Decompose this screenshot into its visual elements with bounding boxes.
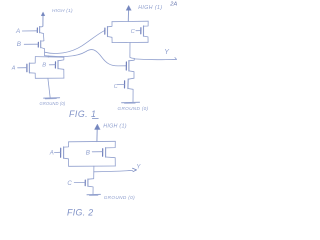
transistor N4 (NMOS, gate C, FIG.1 right)	[125, 78, 135, 102]
svg-text:A: A	[49, 151, 54, 157]
ground symbol (FIG.1 right)	[122, 102, 140, 103]
transistor N2 (NMOS, gate B, FIG.1 left)	[55, 57, 64, 78]
svg-text:Y: Y	[136, 164, 141, 170]
wire NMOS block bottom rail	[35, 77, 64, 79]
transistor N3 (NMOS, gate from N1, FIG.1 right)	[126, 61, 134, 79]
svg-text:C: C	[114, 84, 118, 90]
wire Y node down to NMOS stack	[129, 58, 134, 60]
transistor N5 (NMOS, gate C, FIG.2)	[85, 179, 93, 195]
wire C gate lead (P4)	[136, 30, 141, 32]
svg-text:C: C	[67, 180, 72, 187]
svg-text:FIG. 2: FIG. 2	[67, 207, 94, 217]
wire node N1 to right PMOS gate (curved)	[45, 31, 105, 54]
wire B gate lead (P6)	[92, 151, 102, 153]
wire PMOS top rail (FIG.1 right)	[112, 20, 148, 23]
transistor N1 (NMOS, gate A, FIG.1 left)	[27, 57, 35, 79]
transistor P1 (PMOS, gate A, FIG.1 left)	[37, 26, 43, 33]
svg-text:2A: 2A	[169, 2, 177, 8]
wire output tap down from rail	[130, 43, 134, 59]
svg-text:B: B	[86, 150, 90, 157]
wire output Y line (FIG.2)	[94, 170, 133, 171]
svg-text:Y: Y	[164, 49, 170, 56]
svg-text:B: B	[42, 62, 46, 68]
svg-text:A: A	[11, 66, 16, 72]
svg-text:GROUND (0): GROUND (0)	[118, 106, 149, 111]
wire Y node down to NMOS (FIG.2)	[88, 172, 94, 179]
wire node N1 to right NMOS gate (curved)	[45, 50, 126, 66]
svg-text:HIGH (1): HIGH (1)	[103, 124, 127, 130]
wire PMOS bottom rail (FIG.2)	[69, 165, 116, 167]
svg-text:HIGH (1): HIGH (1)	[138, 5, 162, 11]
wire B gate lead	[24, 43, 38, 45]
wire output tap down (FIG.2)	[93, 166, 95, 172]
wire PMOS bottom rail (FIG.1 right)	[112, 41, 148, 43]
wire P2 source down to node N1	[44, 49, 46, 56]
svg-text:B: B	[17, 41, 22, 48]
transistor P4 (PMOS, gate C, FIG.1 right)	[141, 21, 148, 42]
wire NMOS block top rail (FIG.1 left)	[35, 56, 64, 59]
wire A gate lead (P5)	[54, 151, 60, 153]
svg-text:FIG. 1: FIG. 1	[69, 109, 96, 119]
power VDD arrow (FIG.1 left)	[41, 12, 45, 26]
svg-text:GROUND (0): GROUND (0)	[40, 101, 66, 106]
svg-text:GROUND (0): GROUND (0)	[104, 195, 135, 200]
wire P1 source to P2 drain	[42, 33, 45, 40]
ground symbol (FIG.2)	[87, 194, 100, 195]
wire A gate lead	[22, 30, 37, 32]
svg-text:HIGH (1): HIGH (1)	[52, 8, 73, 13]
wire B gate lead (N2)	[49, 64, 55, 66]
wire output Y line	[134, 58, 176, 60]
ground symbol (FIG.1 left)	[44, 98, 60, 99]
node Y arrowhead (FIG.2)	[133, 168, 137, 172]
wire N1 stub to NMOS rail	[47, 56, 49, 57]
wire C gate lead (N4)	[118, 83, 125, 85]
transistor P3 (PMOS, gate from N1, FIG.1 right)	[105, 22, 112, 43]
wire A gate lead (N1)	[18, 67, 27, 69]
transistor P2 (PMOS, gate B, FIG.1 left)	[38, 41, 44, 49]
wire C gate lead (N5)	[74, 181, 85, 183]
power VDD arrow (FIG.1 right)	[126, 6, 131, 22]
power VDD arrow (FIG.2)	[95, 124, 101, 141]
svg-text:C: C	[131, 29, 136, 35]
transistor P6 (PMOS, gate B, FIG.2)	[103, 141, 116, 166]
wire PMOS top rail (FIG.2)	[69, 140, 116, 143]
wire to ground (FIG.1 left)	[48, 78, 50, 98]
transistor P5 (PMOS, gate A, FIG.2)	[61, 142, 69, 167]
svg-text:A: A	[15, 28, 20, 35]
